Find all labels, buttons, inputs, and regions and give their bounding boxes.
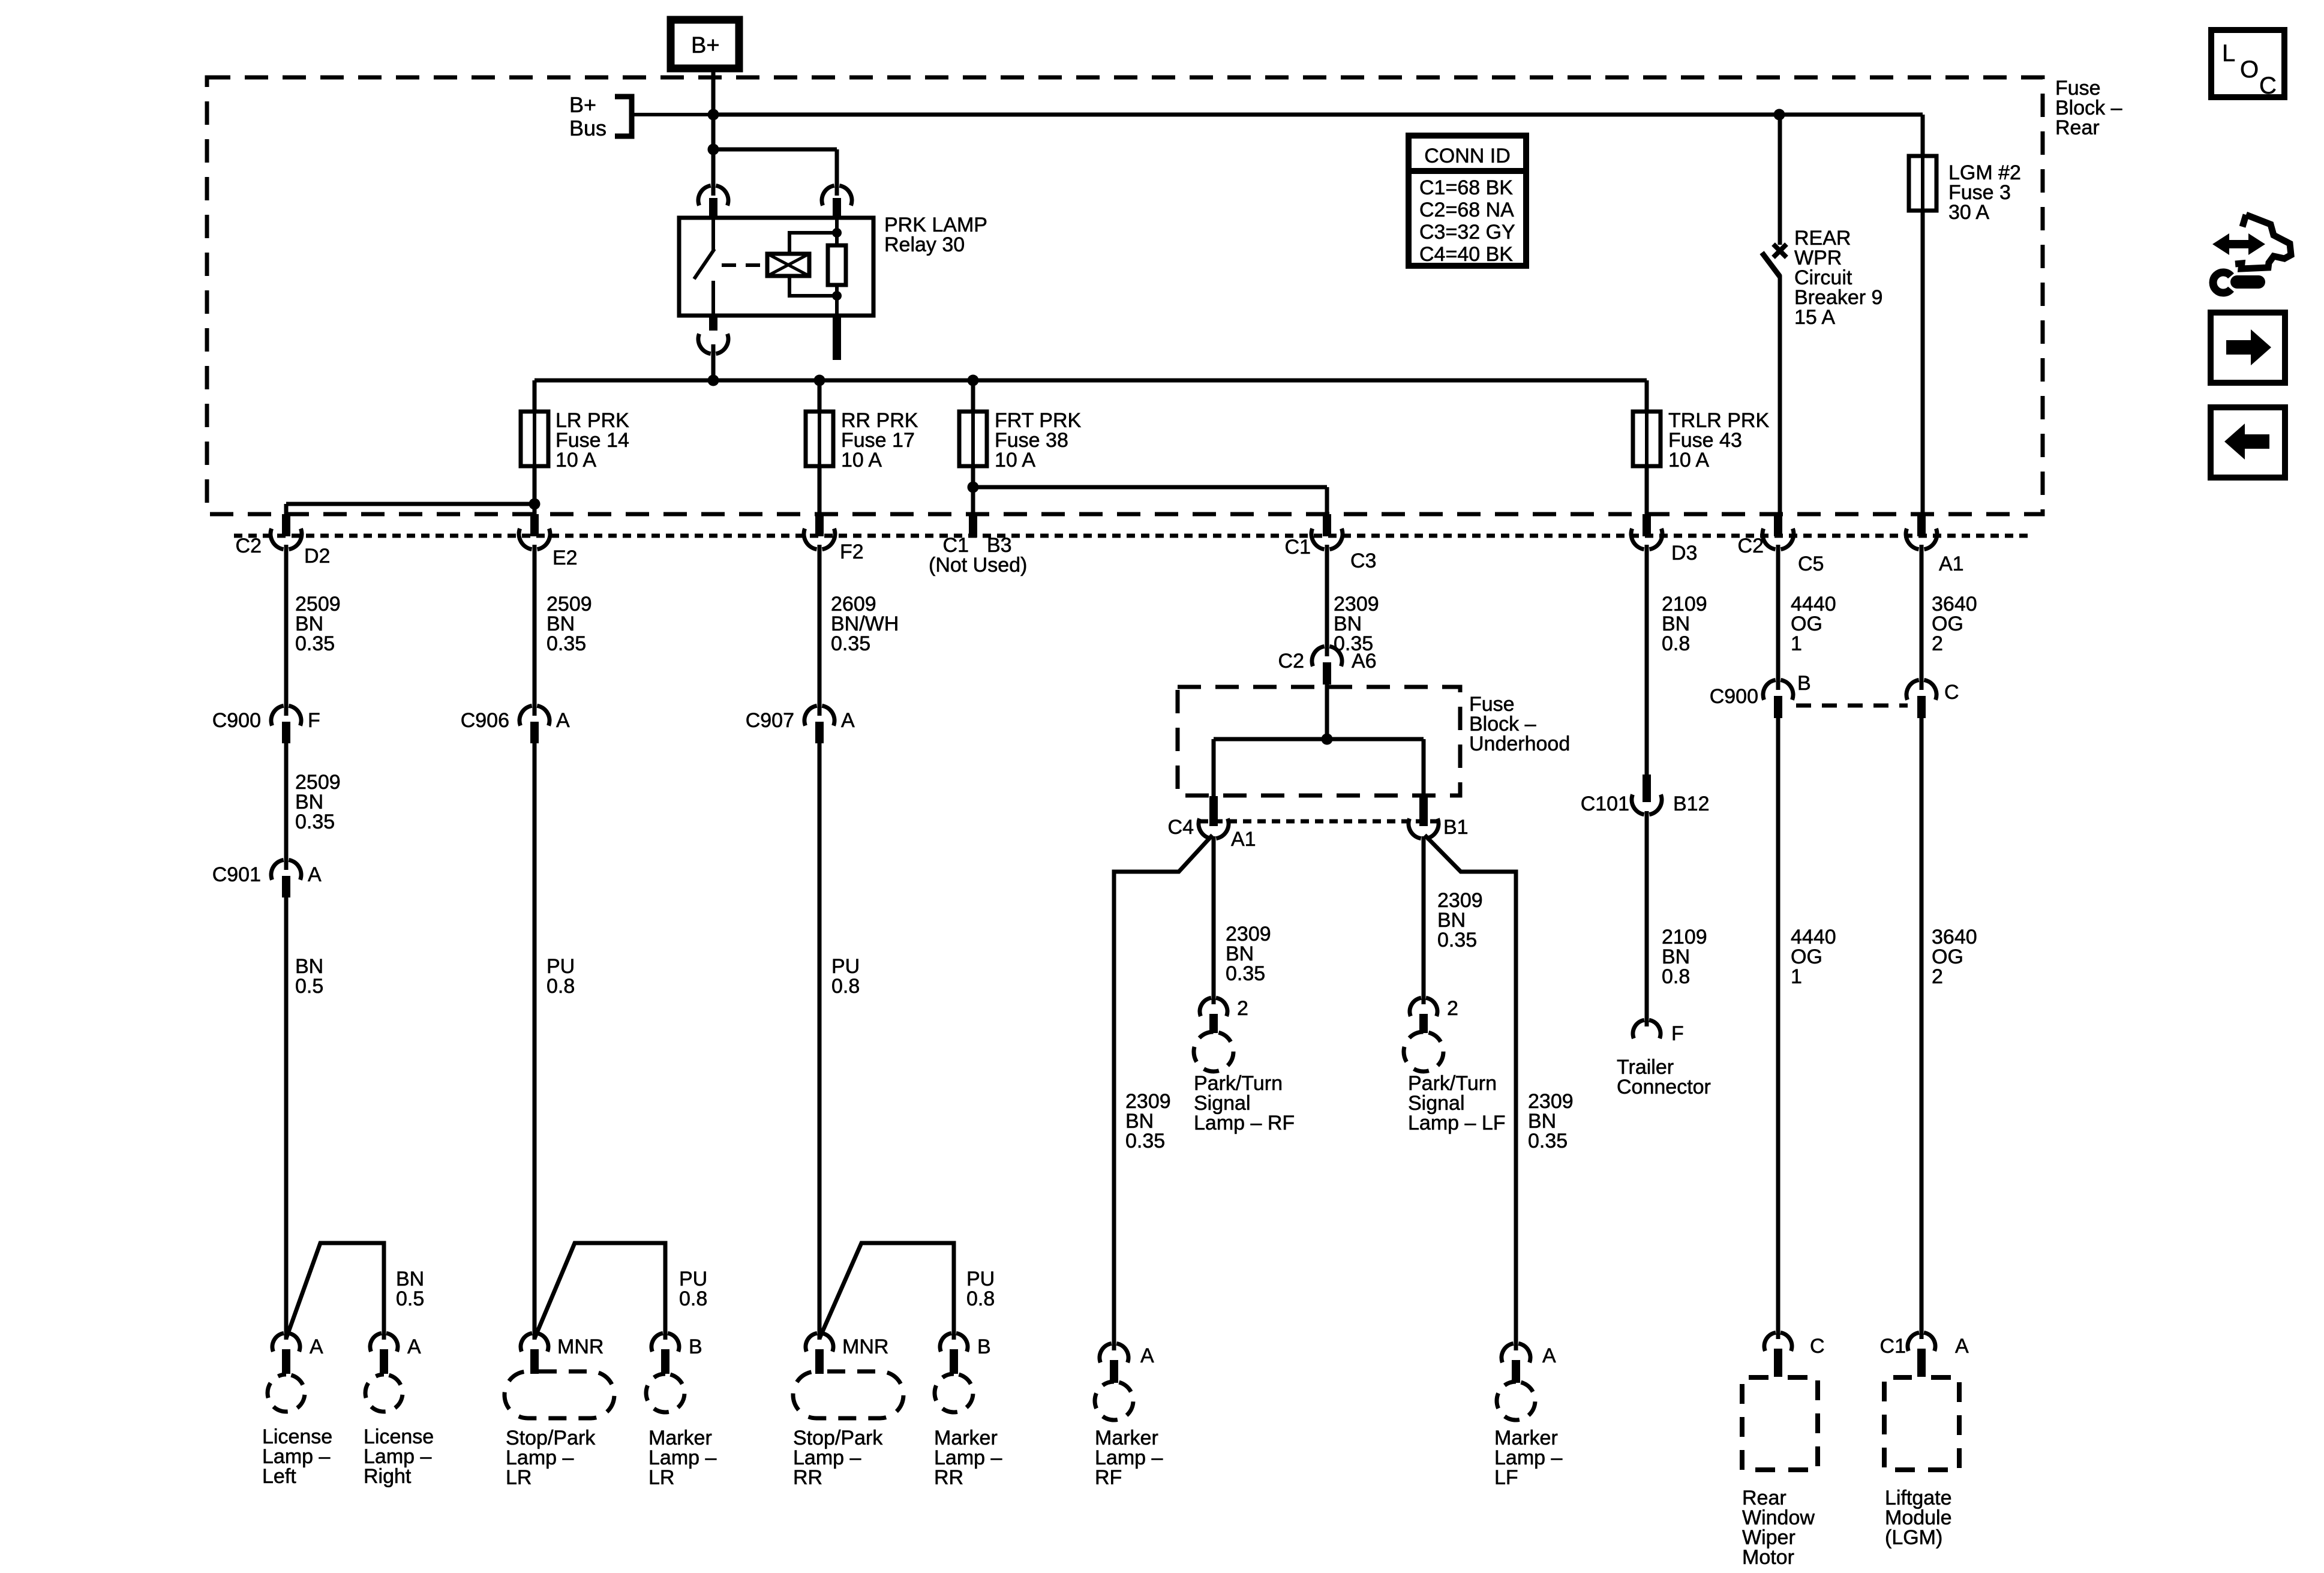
CONN ID table <box>1409 136 1526 266</box>
svg-text:B+: B+ <box>569 92 596 117</box>
svg-text:L: L <box>2222 40 2235 67</box>
connector pin D3 <box>1643 514 1651 536</box>
svg-text:MNR: MNR <box>842 1335 888 1358</box>
svg-text:C: C <box>1810 1335 1825 1358</box>
svg-text:0.35: 0.35 <box>1125 1130 1165 1152</box>
relay coil box with X <box>767 254 809 276</box>
relay coil wire top <box>835 218 839 245</box>
connector marker LF pin A <box>1502 1343 1530 1362</box>
svg-text:(Not Used): (Not Used) <box>929 554 1027 577</box>
connector marker RR pin B <box>940 1333 968 1352</box>
wire 2309 BN to LF park/turn <box>1422 836 1426 1004</box>
wire relay switch feed <box>711 149 716 196</box>
fuse block - underhood boundary (dashed) <box>1178 687 1460 795</box>
lamp License Lamp - Right <box>365 1374 403 1412</box>
wire BN 0.5 down <box>284 897 289 1340</box>
connector socket relay pin 86 <box>822 185 852 205</box>
svg-text:C1: C1 <box>1285 536 1311 559</box>
junction relay coil bottom <box>832 291 842 301</box>
connector liftgate harness pin C <box>1906 680 1936 700</box>
svg-text:MNR: MNR <box>557 1335 603 1358</box>
wire FRT PRK fuse out <box>971 466 975 487</box>
svg-text:Right: Right <box>364 1465 412 1488</box>
relay pin 87 stub below <box>709 316 717 331</box>
wire 2509 BN upper <box>284 545 289 716</box>
relay switch blade <box>694 249 714 279</box>
svg-text:Connector: Connector <box>1617 1076 1711 1098</box>
svg-text:LF: LF <box>1494 1466 1518 1489</box>
lamp Park/Turn Signal Lamp - RF <box>1194 1032 1233 1071</box>
lamp Marker Lamp - RR <box>935 1374 973 1412</box>
junction fuse bus relay <box>708 375 719 386</box>
connector C901 pin A <box>271 860 301 879</box>
svg-text:RR: RR <box>793 1466 822 1489</box>
wire LR to E2 <box>533 504 537 515</box>
wire LF marker branch <box>1425 835 1516 1350</box>
svg-text:F: F <box>1671 1022 1684 1045</box>
breaker blade <box>1762 253 1780 277</box>
connector C2 pin A6 <box>1312 646 1342 666</box>
connector socket relay pin 30 <box>698 185 728 205</box>
svg-text:(LGM): (LGM) <box>1885 1526 1942 1549</box>
svg-text:B: B <box>977 1335 991 1358</box>
svg-text:2: 2 <box>1447 997 1458 1020</box>
connector C1 pin C3 <box>1323 514 1331 536</box>
svg-text:Left: Left <box>262 1465 296 1488</box>
wire 2509 BN middle <box>284 743 289 870</box>
icon LOC box <box>2211 30 2284 97</box>
connector C900 pin F <box>271 706 301 725</box>
svg-text:0.35: 0.35 <box>295 632 335 655</box>
svg-text:0.5: 0.5 <box>295 975 323 998</box>
svg-text:LR: LR <box>648 1466 674 1489</box>
svg-text:Underhood: Underhood <box>1469 733 1570 755</box>
svg-text:C101: C101 <box>1581 792 1629 815</box>
wire fuse feed bus <box>535 379 1647 383</box>
wire 2609 BN/WH F2 <box>818 545 822 716</box>
wire relay output down <box>711 344 716 380</box>
relay suppression resistor <box>828 245 846 285</box>
connector C906 pin A <box>520 706 550 725</box>
svg-text:C: C <box>1944 681 1959 704</box>
fuse LGM #2 Fuse 3 <box>1909 156 1936 211</box>
svg-text:A: A <box>310 1335 323 1358</box>
svg-text:F: F <box>308 709 320 732</box>
connector license right pin A <box>370 1333 398 1352</box>
wire FRT to B3 <box>971 487 975 515</box>
wire 4440 OG lower <box>1776 718 1780 1339</box>
svg-text:10 A: 10 A <box>841 449 882 472</box>
svg-text:D3: D3 <box>1671 542 1697 565</box>
connector marker LR pin B <box>651 1333 679 1352</box>
lamp Stop/Park Lamp - RR <box>793 1371 903 1418</box>
svg-text:0.35: 0.35 <box>547 632 586 655</box>
wire underhood feed <box>1325 684 1329 739</box>
connector LGM C1 pin A <box>1908 1332 1935 1351</box>
relay switch lower contact <box>711 281 715 316</box>
svg-text:C907: C907 <box>746 709 794 732</box>
svg-text:0.8: 0.8 <box>1662 632 1690 655</box>
junction relay feed split <box>708 144 719 155</box>
junction B+ bus at relay feed <box>708 109 719 121</box>
svg-text:C906: C906 <box>461 709 509 732</box>
wire 2509 BN E2 <box>533 545 537 716</box>
connector C101 pin B12 <box>1643 775 1651 802</box>
svg-text:B: B <box>689 1335 702 1358</box>
svg-text:C2: C2 <box>1738 535 1764 557</box>
svg-text:B+: B+ <box>691 33 720 58</box>
svg-text:B: B <box>1797 672 1811 695</box>
fuse FRT PRK Fuse 38 <box>959 412 987 466</box>
fuse RR PRK Fuse 17 <box>806 412 833 466</box>
svg-text:C: C <box>2259 73 2277 99</box>
svg-text:0.8: 0.8 <box>966 1287 995 1310</box>
connector stop/park LR pin MNR <box>521 1333 548 1352</box>
junction FRT PRK split <box>968 482 979 493</box>
wire breaker out <box>1778 275 1782 515</box>
lamp Marker Lamp - LF <box>1497 1382 1535 1420</box>
connector row dotted line <box>234 534 2034 538</box>
B+ bus bracket <box>615 97 632 136</box>
svg-text:10 A: 10 A <box>1668 449 1709 472</box>
svg-text:0.8: 0.8 <box>547 975 575 998</box>
wire branch to C3 <box>973 485 1327 490</box>
connector C1 pin B3 not used <box>969 514 977 538</box>
svg-text:B12: B12 <box>1673 792 1710 815</box>
junction LR PRK split <box>529 499 541 510</box>
wire PU 0.8 RR down <box>818 743 822 1340</box>
wire LGM fuse feed <box>1921 115 1925 158</box>
svg-text:RR: RR <box>934 1466 963 1489</box>
wire relay coil feed <box>713 148 837 152</box>
svg-text:30 A: 30 A <box>1948 201 1989 224</box>
svg-text:C1=68 BK: C1=68 BK <box>1419 176 1513 199</box>
svg-text:A: A <box>1542 1344 1556 1367</box>
icon forward reference arrow box <box>2211 313 2285 383</box>
connector wiper pin C <box>1764 1332 1792 1351</box>
svg-text:C3: C3 <box>1350 550 1376 572</box>
svg-text:0.35: 0.35 <box>831 632 870 655</box>
wire 2109 BN upper <box>1645 545 1649 775</box>
wire RR PRK fuse top <box>818 380 822 413</box>
wire underhood left leg <box>1212 739 1216 796</box>
fuse block - rear boundary (dashed) <box>207 77 2043 514</box>
connector C4 pin A1 <box>1209 796 1218 826</box>
wire underhood right leg <box>1422 739 1426 796</box>
wire 2309 BN to RF park/turn <box>1212 836 1216 1004</box>
wire TRLR PRK fuse out <box>1645 466 1649 515</box>
connector park/turn LF pin 2 <box>1410 998 1437 1016</box>
svg-text:RF: RF <box>1095 1466 1122 1489</box>
underhood connector row dotted line <box>1200 819 1440 824</box>
breaker contact X <box>1773 244 1786 257</box>
svg-text:C4=40 BK: C4=40 BK <box>1419 243 1513 266</box>
svg-text:0.35: 0.35 <box>1437 929 1477 951</box>
svg-text:C5: C5 <box>1798 553 1824 575</box>
connector trailer pin F <box>1633 1020 1661 1038</box>
svg-text:0.35: 0.35 <box>1528 1130 1568 1152</box>
wire 4440 OG upper <box>1776 545 1780 690</box>
connector license left pin A <box>272 1333 300 1352</box>
wire LR marker branch <box>535 1243 665 1340</box>
wire RR marker branch <box>819 1243 954 1340</box>
module Rear Window Wiper Motor box <box>1742 1377 1818 1470</box>
relay actuator dashed link <box>722 263 763 267</box>
lamp License Lamp - Left <box>268 1374 305 1412</box>
wire B+ bus horizontal <box>713 113 1923 117</box>
relay coil wire bottom <box>835 285 839 316</box>
connector C2 pin D2 <box>282 514 290 536</box>
wire 2109 BN lower <box>1645 811 1649 1026</box>
svg-text:Relay 30: Relay 30 <box>884 233 965 256</box>
wire license branch diagonal <box>286 1243 384 1340</box>
svg-text:A: A <box>841 709 855 732</box>
wire LR PRK fuse top <box>533 380 537 413</box>
svg-text:A1: A1 <box>1231 828 1256 851</box>
connector socket relay pin 87 <box>698 334 728 353</box>
svg-text:C2: C2 <box>236 535 262 557</box>
connector pin A1 <box>1917 514 1926 536</box>
wire 3640 OG lower <box>1920 718 1924 1339</box>
power symbol B+ box <box>671 20 739 68</box>
connector pin E2 <box>530 514 539 536</box>
fuse TRLR PRK Fuse 43 <box>1633 412 1661 466</box>
svg-text:0.8: 0.8 <box>679 1287 707 1310</box>
svg-text:C3=32 GY: C3=32 GY <box>1419 221 1515 244</box>
relay switch fixed contact <box>711 218 715 250</box>
svg-text:1: 1 <box>1791 965 1802 988</box>
wire FRT PRK fuse top <box>971 380 975 413</box>
svg-text:C900: C900 <box>212 709 261 732</box>
wire breaker feed <box>1778 115 1782 245</box>
svg-text:0.8: 0.8 <box>831 975 860 998</box>
lamp Stop/Park Lamp - LR <box>505 1371 614 1418</box>
svg-text:0.35: 0.35 <box>295 810 335 833</box>
lamp Marker Lamp - LR <box>646 1374 684 1412</box>
wire 3640 OG upper <box>1920 545 1924 690</box>
svg-text:B1: B1 <box>1443 816 1469 839</box>
wire LGM fuse out <box>1921 211 1925 515</box>
svg-text:A: A <box>556 709 570 732</box>
wire underhood bus <box>1214 737 1424 742</box>
svg-text:Bus: Bus <box>569 116 606 140</box>
svg-text:2: 2 <box>1932 965 1943 988</box>
wire 2309 BN C3 <box>1325 545 1329 656</box>
wire relay feed down <box>711 115 716 149</box>
wire PU 0.8 LR down <box>533 743 537 1340</box>
relay coil loop wires <box>789 233 837 296</box>
svg-text:D2: D2 <box>304 545 330 568</box>
junction fuse bus RR <box>814 375 825 386</box>
svg-text:10 A: 10 A <box>556 449 596 472</box>
svg-text:1: 1 <box>1791 632 1802 655</box>
svg-text:2: 2 <box>1237 997 1248 1020</box>
relay PRK LAMP Relay 30 box <box>679 218 873 316</box>
connector stop/park RR pin MNR <box>806 1333 833 1352</box>
connector marker RF pin A <box>1100 1343 1128 1362</box>
svg-text:A: A <box>1955 1335 1969 1358</box>
svg-text:Rear: Rear <box>2055 116 2100 139</box>
module Liftgate Module box <box>1884 1377 1959 1470</box>
connector pin B1 <box>1419 796 1428 826</box>
svg-text:10 A: 10 A <box>995 449 1035 472</box>
svg-text:C901: C901 <box>212 863 261 886</box>
wire B+ feed down <box>711 68 716 115</box>
junction B+ bus at breaker feed <box>1774 109 1785 121</box>
svg-text:15 A: 15 A <box>1794 306 1835 329</box>
svg-text:C900: C900 <box>1710 685 1758 708</box>
wire RR PRK fuse out <box>818 466 822 515</box>
svg-text:2: 2 <box>1932 632 1943 655</box>
relay pin 85 stub below (unused) <box>833 316 841 360</box>
svg-text:LR: LR <box>506 1466 532 1489</box>
icon harness connector face view with arrow and wrench <box>2212 233 2265 255</box>
connector C2 pin C5 <box>1774 514 1782 536</box>
junction underhood bus <box>1322 734 1333 745</box>
svg-text:C2=68 NA: C2=68 NA <box>1419 199 1514 221</box>
connector C900 B-C dotted link <box>1796 704 1908 708</box>
connector park/turn RF pin 2 <box>1200 998 1227 1016</box>
svg-text:C4: C4 <box>1168 816 1194 839</box>
svg-text:C1: C1 <box>1880 1335 1906 1358</box>
svg-text:Lamp – LF: Lamp – LF <box>1408 1112 1506 1134</box>
svg-text:E2: E2 <box>553 547 578 569</box>
svg-text:Motor: Motor <box>1742 1546 1794 1569</box>
svg-text:A1: A1 <box>1939 553 1964 575</box>
fuse LR PRK Fuse 14 <box>521 412 548 466</box>
wire LR PRK fuse out <box>533 466 537 504</box>
lamp Park/Turn Signal Lamp - LF <box>1404 1032 1443 1071</box>
svg-text:A: A <box>407 1335 421 1358</box>
svg-text:CONN ID: CONN ID <box>1424 145 1511 167</box>
svg-text:0.8: 0.8 <box>1662 965 1690 988</box>
svg-text:A: A <box>1140 1344 1154 1367</box>
connector pin F2 <box>815 514 824 536</box>
connector C907 pin A <box>804 706 834 725</box>
svg-text:0.35: 0.35 <box>1226 962 1265 985</box>
connector C900 pin B <box>1763 680 1793 700</box>
svg-text:Lamp – RF: Lamp – RF <box>1194 1112 1295 1134</box>
junction relay coil top <box>832 228 842 238</box>
wire TRLR PRK fuse top <box>1645 380 1649 413</box>
svg-text:F2: F2 <box>840 541 864 563</box>
junction fuse bus FRT <box>968 375 979 386</box>
wire RF marker branch <box>1114 835 1212 1350</box>
svg-text:A: A <box>308 863 322 886</box>
svg-text:O: O <box>2240 56 2259 83</box>
svg-text:0.5: 0.5 <box>396 1287 424 1310</box>
icon backward reference arrow box <box>2211 407 2285 478</box>
wire branch to D2 <box>286 502 535 506</box>
svg-text:A6: A6 <box>1352 650 1377 673</box>
svg-text:C2: C2 <box>1278 650 1304 673</box>
lamp Marker Lamp - RF <box>1095 1382 1133 1420</box>
